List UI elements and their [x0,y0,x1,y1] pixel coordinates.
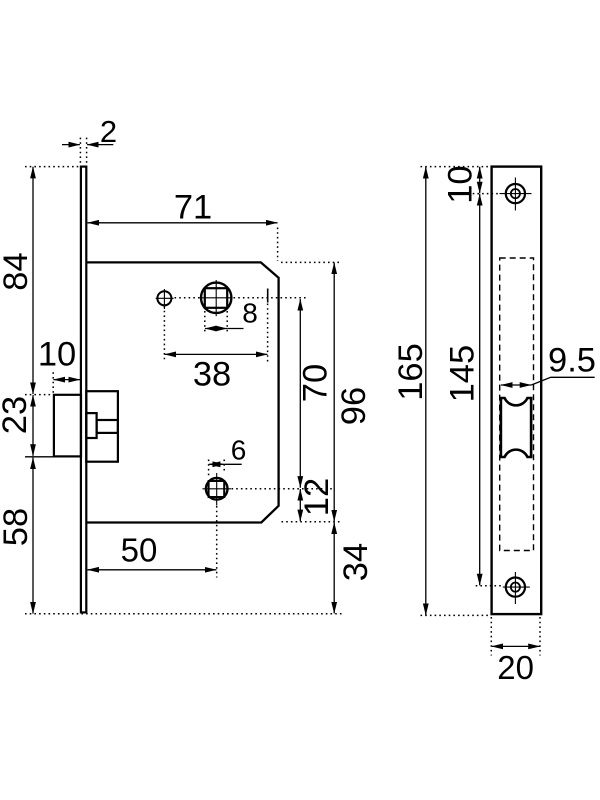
key hole [203,473,232,506]
dim 10 latch protrusion [38,336,80,380]
extension line plate top [421,166,491,168]
extension line plate bottom [421,614,492,616]
faceplate side view [81,167,86,613]
tick mark hub edge [267,289,269,303]
svg-text:20: 20 [497,649,534,686]
dim 23 latch height [0,395,34,456]
extension line case right corner [277,228,279,262]
extension line 8 right [226,311,228,335]
extension line case bottom right [282,521,342,523]
dim 34 [334,522,375,613]
svg-text:12: 12 [298,478,336,516]
dim 9.5 with leader [501,342,596,386]
dim 96 case height [334,263,373,522]
extension line spindle axis right [234,297,308,299]
extension line top screw axis [468,193,500,195]
svg-text:96: 96 [335,387,373,425]
svg-text:23: 23 [0,396,34,434]
svg-text:84: 84 [0,252,35,290]
svg-text:70: 70 [297,364,335,402]
extension line key axis right [232,488,336,490]
extension line faceplate right edge [86,138,88,166]
dim 84 [0,167,35,394]
screw hole bottom [503,572,530,604]
dim 58 [0,458,35,614]
extension line 38 right [267,304,269,362]
extension line 6 left [208,460,210,479]
extension line key hole axis down [216,506,218,578]
screw hole top [500,178,532,211]
latch tail stem [97,420,118,433]
dim 10 screw offset [442,165,480,203]
spindle hole [199,280,233,316]
svg-text:10: 10 [38,336,76,374]
dim 70 [297,299,335,488]
dim 71 case width [88,189,278,227]
svg-text:58: 58 [0,508,35,546]
extension line latch bottom [25,456,55,458]
dim 8 spindle square [205,298,258,329]
extension line latch top [25,394,53,396]
svg-text:9.5: 9.5 [548,342,596,380]
latch bolt head [54,395,81,457]
extension line spindle axis between holes [175,297,200,299]
extension line 6 right [223,460,225,474]
svg-text:2: 2 [100,114,117,149]
extension line faceplate bottom baseline [25,613,342,615]
svg-text:145: 145 [444,345,482,403]
svg-text:34: 34 [337,543,375,581]
dim 145 screw spacing [444,194,482,585]
lock case outline [86,262,278,522]
fixing hole [156,289,174,309]
svg-text:8: 8 [242,298,258,329]
dim 50 backset [88,532,217,570]
svg-text:38: 38 [193,356,231,394]
svg-text:6: 6 [231,435,247,466]
svg-text:10: 10 [442,165,480,203]
extension line 38 left [163,306,165,362]
svg-text:50: 50 [121,532,158,569]
dim 2 faceplate thickness [62,114,117,149]
latch bolt front view [501,398,531,457]
extension line plate right down [539,617,541,656]
svg-text:71: 71 [174,189,212,227]
dim 165 plate length [392,167,430,615]
extension line bottom screw axis [476,585,503,587]
extension line plate left down [490,617,492,656]
dim 38 [165,354,268,393]
strike plate front view [492,167,542,614]
extension line faceplate left edge [79,138,81,166]
extension line latch left edge [52,372,54,394]
dim 6 key square [209,435,246,466]
extension line faceplate top [25,166,79,168]
extension line 8 left [204,311,206,335]
dim 12 [298,478,336,521]
latch tail block [86,391,118,462]
dashed cutout [500,258,534,551]
svg-text:165: 165 [392,343,430,401]
extension line case top [281,261,341,263]
dim 20 plate width [492,646,540,686]
latch tail notch [86,413,96,438]
